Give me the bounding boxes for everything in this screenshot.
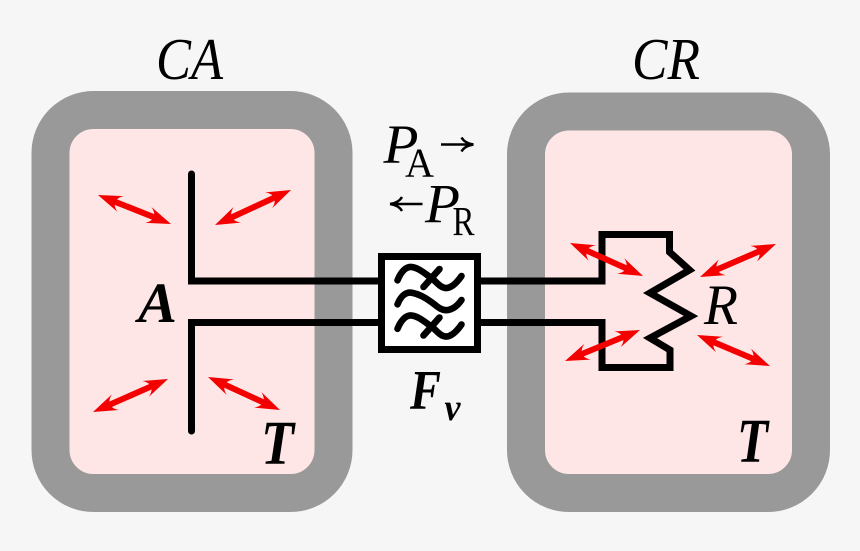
filter box F (band-pass filter) — [382, 257, 478, 350]
svg-text:R: R — [453, 198, 476, 244]
arrow R lower-left (double-headed radiation arrow) — [565, 330, 640, 361]
filter wave top slash — [424, 269, 440, 287]
filter wave bottom (crossed) — [398, 315, 462, 336]
arrow R upper-left (double-headed radiation arrow) — [570, 243, 643, 276]
antenna A upper element + top wire to filter — [192, 174, 381, 281]
svg-text:ν: ν — [445, 387, 462, 429]
label P_A with right arrow — [382, 114, 473, 186]
arrow R upper-right (double-headed radiation arrow) — [700, 244, 776, 277]
chamber CR (right cavity, gray wall, pink interior) — [526, 112, 811, 494]
svg-text:T: T — [737, 408, 770, 476]
filter wave middle (pass band) — [398, 293, 462, 311]
antenna A lower element + bottom wire to filter — [192, 323, 381, 432]
svg-text:T: T — [261, 410, 296, 478]
arrow L upper-right (double-headed radiation arrow) — [215, 190, 291, 225]
resistor R with connecting wires from filter — [479, 235, 691, 368]
label P_R with left arrow — [390, 173, 475, 244]
arrow L lower-right (double-headed radiation arrow) — [208, 377, 280, 410]
label F_v (filter passband) — [409, 360, 461, 429]
svg-text:F: F — [409, 360, 441, 422]
svg-text:R: R — [703, 274, 738, 337]
arrow L upper-left (double-headed radiation arrow) — [98, 195, 171, 224]
filter wave top (crossed) — [398, 267, 462, 288]
chamber CA (left cavity, gray wall, pink interior) — [51, 110, 334, 493]
filter wave bottom slash — [424, 318, 440, 336]
arrow R lower-right (double-headed radiation arrow) — [697, 335, 770, 366]
svg-text:A: A — [135, 272, 177, 335]
svg-text:CR: CR — [632, 26, 700, 92]
arrow L lower-left (double-headed radiation arrow) — [93, 379, 168, 412]
svg-text:CA: CA — [156, 26, 224, 92]
